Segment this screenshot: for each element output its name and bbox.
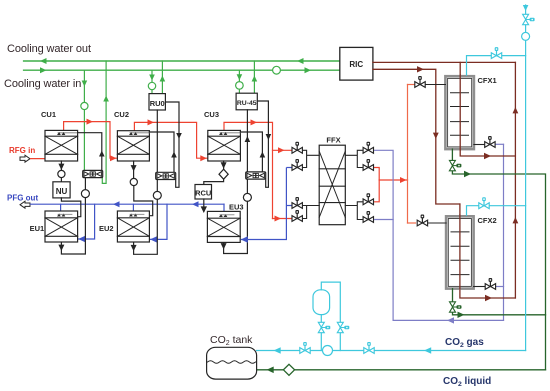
column CFX1 — [445, 76, 474, 149]
arrow left CO2 gas 2 — [424, 347, 431, 354]
wire dark-red through CFX1 — [460, 62, 515, 156]
arrow right red to valve V4 — [275, 216, 282, 222]
wire PFG branch into EU1 right — [79, 204, 95, 239]
valve cyan CFX1 feed — [491, 47, 501, 58]
svg-text:RU-45: RU-45 — [237, 100, 257, 107]
wire vessel top loop — [321, 282, 340, 350]
svg-text:Cooling water out: Cooling water out — [7, 43, 91, 55]
svg-text:CFX2: CFX2 — [478, 216, 497, 225]
tank liquid level wavy line — [208, 361, 256, 364]
wire pump to NU box — [60, 178, 62, 182]
CFX2 tray 2 — [451, 245, 469, 247]
CU1 top band tag — [58, 132, 78, 134]
trap diamond under CU3 — [219, 169, 228, 179]
wire green CFX2 liquid outlet — [453, 289, 546, 315]
arrow left on cooling water out (right) — [297, 58, 304, 64]
wire PFG branch into EU3 right — [241, 168, 287, 240]
wire blue to FFX valve V2 — [286, 167, 292, 169]
wire purple stub to CFX1 outlet valve — [496, 143, 504, 145]
valve on vessel right leg — [337, 322, 349, 332]
valve V1 FFX left — [292, 142, 302, 153]
wire cooling water in header — [24, 69, 340, 71]
svg-text:CU3: CU3 — [204, 110, 219, 119]
wire purple bottom run — [393, 319, 503, 321]
arrow up dark-red riser 2 — [513, 217, 519, 223]
valve green CFX1 bottom — [449, 160, 461, 170]
wire cooling feed to CU1 hx — [83, 70, 85, 170]
wire dark-red riser right of CFX columns — [514, 62, 516, 298]
wire FFX right bottom port manifold — [345, 202, 362, 220]
pump circle cooling feed CU1 — [81, 102, 88, 109]
heat exchanger EU1 — [45, 211, 78, 242]
valve V8 FFX right — [363, 211, 373, 222]
wire purple FFX valve V8 to loop — [375, 219, 394, 221]
arrow left on PFG header 1 — [113, 201, 120, 207]
pump circle on cooling water in header — [273, 66, 281, 74]
wire EU2 top to PFG header — [132, 204, 134, 211]
CU3 top band tag — [220, 132, 240, 134]
wire RU0 right side loop down — [165, 102, 179, 187]
wire red FFX valve V7 outlet — [375, 180, 380, 202]
wire CU2 top band to HX2 riser — [149, 132, 174, 173]
crossing exchanger HX1 — [83, 170, 103, 177]
pump circle cooling feed RU-45 — [236, 82, 244, 90]
CFX1 tray 3 — [451, 121, 469, 123]
arrow down EU3 bottom outlet — [221, 243, 227, 249]
wire vessel bottom leg — [320, 315, 322, 351]
arrow down EU2 bottom outlet — [131, 245, 137, 251]
wire CU3 trap to RCU — [204, 179, 224, 184]
arrow left on PFG header 2 — [192, 201, 199, 207]
svg-text:PFG out: PFG out — [7, 194, 38, 203]
wire pump P2 down to EU2 bottom loop — [134, 199, 158, 254]
wire cooling water out header — [24, 60, 340, 62]
wire dark-red through CFX2 — [460, 204, 516, 298]
svg-text:RCU: RCU — [195, 189, 211, 198]
valve cyan CFX2 feed — [479, 197, 489, 208]
valve cyan main top — [523, 14, 535, 24]
wire NU outlet to EU1 top band — [61, 198, 80, 217]
arrow down on RU-45 loop — [266, 134, 272, 140]
valve V7 FFX right — [363, 193, 373, 204]
wire RU-45 right side loop down — [257, 101, 268, 187]
pump circle CO2 gas — [323, 346, 333, 356]
svg-text:CU2: CU2 — [114, 110, 129, 119]
arrow right red over CU3 — [251, 119, 258, 125]
wire red FFX valve V6 outlet — [375, 168, 380, 181]
wire black CFX1 gas outlet to valve — [474, 144, 484, 146]
arrow down cooling feed RU0 — [149, 75, 155, 81]
CFX1 tray 4 — [451, 134, 469, 136]
check diamond on CO2 liquid line — [283, 364, 294, 375]
wire black CFX1 inlet from valve — [426, 84, 446, 86]
valve V3 FFX left — [292, 197, 302, 208]
unit RIC box — [340, 47, 373, 80]
svg-text:CFX1: CFX1 — [478, 76, 497, 85]
arrow up on CU3 hx riser — [260, 152, 266, 158]
heat exchanger CU3 — [208, 130, 241, 161]
svg-text:EU2: EU2 — [99, 224, 114, 233]
arrow left into EU1 — [78, 236, 85, 242]
arrow up dark-red riser 1 — [513, 107, 519, 113]
wire dark-red RIC lower supply — [373, 69, 460, 204]
wire red branch to FFX valve V1 — [273, 149, 293, 151]
valve V4 FFX left — [292, 210, 302, 221]
wire pump P1 down to EU1 bottom loop — [61, 198, 85, 254]
crossing exchanger HX3 — [246, 172, 266, 179]
unit NU box — [53, 182, 70, 198]
wire HX1 to pump P1 — [84, 178, 86, 190]
wire HX2 to pump P2 — [156, 180, 158, 192]
svg-text:Cooling water in: Cooling water in — [4, 78, 81, 90]
arrow left into EU3 — [241, 236, 248, 242]
arrow right red over CU2 — [148, 119, 155, 125]
valve V5 FFX right — [363, 142, 373, 153]
wire pump P3 down to EU3 bottom loop — [224, 201, 248, 253]
svg-text:FFX: FFX — [326, 136, 340, 145]
wire cyan CO2 gas main riser — [525, 5, 527, 351]
arrow right on cooling water in (right) — [305, 67, 312, 73]
wire purple FFX valve V5 to loop — [375, 150, 394, 320]
arrow right green CFX1 outlet run — [464, 171, 471, 177]
valve green CFX2 bottom — [450, 302, 462, 312]
wire cooling feed to RU0 — [151, 70, 153, 93]
wire RU-45 bottom to HX3 — [246, 110, 248, 172]
CFX1 tray 1 — [451, 92, 469, 94]
wire purple right riser to CFX valves — [503, 144, 505, 320]
arrow up on CU1 hx riser — [99, 151, 105, 157]
wire cyan branch to CFX1 top — [467, 56, 526, 75]
column CFX2 — [446, 216, 474, 288]
arrow left on purple bottom run — [447, 317, 454, 323]
arrow right red into CU3 — [200, 155, 207, 161]
valve V6 FFX right — [363, 159, 373, 170]
wire red to CFX feed column — [379, 179, 407, 181]
arrow up cooling return CU1 — [103, 96, 109, 102]
svg-text:EU3: EU3 — [229, 203, 244, 212]
svg-text:RFG in: RFG in — [9, 146, 35, 155]
pump circle cooling feed RU0 — [148, 82, 155, 89]
svg-text:CO2 tank: CO2 tank — [210, 334, 253, 347]
wire RCU outlet into EU3 — [203, 199, 205, 211]
arrow right red into CU2 — [110, 155, 117, 161]
arrow left into EU2 — [150, 236, 157, 242]
CFX2 tray 1 — [451, 231, 469, 233]
arrow down RCU outlet — [201, 206, 207, 213]
unit RU0 box — [149, 94, 165, 110]
arrow down on RU0 loop — [176, 133, 182, 139]
wire red stub to CFX2 inlet valve — [408, 222, 416, 224]
arrow down EU1 bottom outlet — [58, 245, 64, 251]
valve CFX1 inlet — [415, 76, 425, 87]
EU1 top band tag — [57, 214, 65, 217]
wire red CU3 outlet to FFX valve column — [224, 122, 273, 218]
wire PFG branch into EU2 right — [150, 204, 167, 239]
wire dark-red RIC upper supply — [373, 61, 516, 63]
arrow down CU1 bottom outlet — [58, 164, 64, 170]
pump P2 circle — [153, 191, 161, 199]
valve CFX1 gas outlet — [485, 136, 495, 147]
wire dark-red visible through CFX1 interior — [459, 75, 461, 150]
arrow left CO2 gas 1 — [274, 347, 281, 354]
pump circle under CU1 — [58, 170, 65, 177]
heat exchanger EU2 — [117, 211, 149, 242]
wire blue to FFX valve V3 — [286, 205, 292, 207]
wire RU0 bottom to HX2 — [156, 110, 158, 173]
wire cyan branch to CFX2 top — [467, 206, 526, 216]
arrow right dark-red CFX2 bottom — [485, 295, 492, 301]
block arrow PFG out — [20, 201, 30, 208]
valve on vessel bottom leg — [318, 322, 330, 332]
wire CO2 gas line — [257, 350, 526, 352]
arrow left on cooling water out — [40, 58, 47, 64]
EU3 top band tag — [219, 214, 227, 217]
wire FFX right top port manifold — [345, 150, 362, 167]
pump circle cyan main top — [522, 32, 530, 40]
wire cooling feed to RU-45 — [238, 70, 240, 93]
arrow down cooling feed CU1 — [82, 81, 88, 87]
pump circle under CU2 — [130, 178, 137, 185]
wire CU3 top band to HX3 riser — [240, 132, 262, 172]
valve CFX2 gas outlet — [485, 278, 495, 289]
arrow down cooling feed RU-45 — [237, 74, 243, 80]
EU2 top band tag — [129, 214, 137, 217]
wire red stub to CFX1 inlet valve — [408, 84, 415, 86]
arrow down cyan main top — [523, 5, 529, 11]
wire red branch to FFX valve V4 — [273, 218, 293, 220]
arrow right dark-red RIC lower — [417, 66, 424, 72]
tank CO2 drum — [207, 347, 257, 379]
arrow left CO2 liquid — [267, 367, 274, 374]
wire CU1 top band to hx riser — [78, 133, 102, 171]
wire RFG in to CU1 — [31, 158, 46, 160]
pump P1 circle — [81, 190, 89, 198]
arrow up on RU-45 bottom line — [245, 136, 251, 142]
wire red CFX feed riser — [407, 85, 409, 224]
wire CU1 bottom outlet — [60, 161, 62, 170]
CFX1 tray 2 — [451, 106, 469, 108]
unit FFX reversing exchanger — [319, 145, 345, 225]
wire CU2 bottom outlet — [133, 161, 135, 178]
heat exchanger CU2 — [117, 131, 149, 161]
wire cooling return from RU0 — [161, 61, 163, 94]
wire cooling return from RU-45 — [253, 61, 255, 93]
unit RCU box — [195, 185, 212, 200]
wire HX3 to pump P3 — [246, 179, 248, 193]
arrow up cooling return RU0 — [160, 76, 166, 82]
svg-text:CO2 gas: CO2 gas — [445, 337, 484, 349]
wire dark-red visible through CFX2 interior — [459, 215, 461, 289]
svg-text:CU1: CU1 — [41, 110, 56, 119]
wire FFX left top port manifold — [302, 150, 319, 167]
svg-text:RU0: RU0 — [150, 99, 165, 108]
CFX2 tray 4 — [451, 274, 469, 276]
arrow right on cooling water in — [40, 67, 47, 73]
arrow down CU3 bottom outlet — [221, 162, 227, 168]
arrow right red over CU1 — [87, 119, 94, 125]
svg-text:CO2 liquid: CO2 liquid — [443, 376, 491, 388]
wire black CFX2 gas outlet to valve — [474, 286, 485, 288]
crossing exchanger HX2 — [156, 172, 176, 179]
wire EU3 top to PFG header — [223, 204, 225, 211]
wire CU2 condensate to EU2 top band — [134, 186, 153, 216]
svg-text:NU: NU — [56, 187, 68, 196]
wire EU1 top to PFG header — [60, 204, 62, 211]
arrow down dark-red feed — [433, 133, 439, 139]
arrow right red to CFX feed — [400, 177, 407, 183]
arrow right dark-red CFX1 bottom — [484, 153, 491, 159]
CFX2 tray 3 — [451, 259, 469, 261]
CU2 top band tag — [130, 132, 149, 134]
block arrow RFG in — [20, 155, 30, 162]
heat exchanger CU1 — [45, 130, 78, 161]
valve CFX2 inlet — [417, 215, 427, 226]
valve V2 FFX left — [292, 159, 302, 170]
pump P3 circle — [243, 193, 251, 201]
svg-text:EU1: EU1 — [30, 224, 45, 233]
wire PFG header — [31, 203, 225, 205]
unit RU-45 box — [236, 93, 257, 110]
wire CO2 liquid line — [257, 369, 546, 371]
arrow right red to valve V1 — [278, 147, 285, 153]
wire red CU2 outlet to CU3 inlet — [134, 122, 207, 158]
wire red CU1 outlet to CU2 inlet — [64, 122, 117, 159]
wire purple stub to CFX2 outlet valve — [496, 286, 504, 288]
arrow up cooling return RU-45 — [252, 76, 258, 82]
arrow right green CFX2 outlet run — [458, 312, 465, 318]
wire FFX left bottom port manifold — [302, 206, 319, 219]
heat exchanger EU3 — [207, 211, 240, 242]
arrow down CU2 bottom outlet — [131, 165, 137, 171]
arrow up on CU2 hx riser — [171, 152, 177, 158]
valve CO2 gas left — [300, 342, 310, 353]
svg-text:RIC: RIC — [349, 60, 363, 69]
wire green CFX1 liquid outlet — [452, 149, 545, 370]
wire black CFX2 inlet from valve — [428, 222, 446, 224]
wire cooling return from CU1 hx — [102, 61, 106, 183]
buffer vessel cyan — [313, 290, 330, 315]
wire CU3 bottom outlet — [223, 161, 225, 169]
valve CO2 gas right — [364, 342, 374, 353]
